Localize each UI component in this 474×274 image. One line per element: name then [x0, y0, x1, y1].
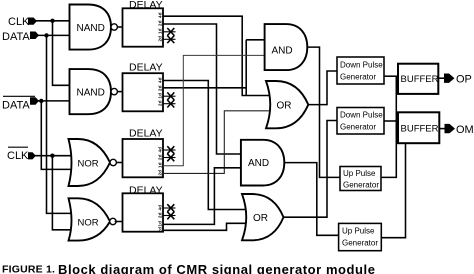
svg-text:AND: AND [272, 45, 293, 56]
wire DATA to NAND1 [38, 34, 70, 36]
svg-text:BUFFER: BUFFER [401, 123, 439, 134]
node DATAbar input pad [30, 97, 39, 104]
wire DELAY2 pin1 to OR2 top [163, 81, 246, 210]
wire AND1 out to UpPulse1 [307, 47, 340, 177]
delay block DELAY3 [123, 128, 164, 178]
svg-text:CLK: CLK [8, 16, 30, 28]
svg-text:1d: 1d [158, 162, 163, 168]
delay block DELAY4 [123, 185, 164, 233]
svg-text:Up Pulse: Up Pulse [342, 227, 375, 236]
svg-text:Generator: Generator [340, 73, 376, 82]
wire DELAY4 pin4 to OR2 bottom [163, 223, 246, 230]
wire DownPulse2 out to BUFFER2 [384, 120, 398, 122]
svg-text:Down Pulse: Down Pulse [340, 61, 383, 70]
svg-text:NAND: NAND [77, 23, 105, 34]
wire UpPulse1 out up to BUFFER1 input [381, 76, 396, 177]
svg-text:2d: 2d [158, 227, 163, 233]
svg-text:1d: 1d [158, 221, 163, 227]
wire OR1 out to DownPulse1 [308, 71, 337, 105]
svg-text:FIGURE 1.: FIGURE 1. [2, 264, 55, 274]
wire NAND2 out to DELAY2 [117, 91, 122, 93]
wire CLKbar to NOR1 [35, 155, 74, 157]
delay block DELAY2 [123, 62, 164, 112]
svg-text:Generator: Generator [343, 181, 379, 190]
gate NAND2 [70, 69, 118, 114]
delay2 X stub pin3 [163, 92, 176, 100]
svg-text:OP: OP [456, 74, 472, 86]
gate NOR1 [69, 139, 117, 186]
wire CLKbar vertical to NOR2 [52, 156, 71, 230]
svg-text:2d: 2d [158, 154, 163, 160]
gate NOR2 [69, 198, 117, 240]
svg-text:Generator: Generator [340, 123, 376, 132]
gate AND1 [265, 24, 308, 70]
wire OR2 out to DownPulse2 [284, 121, 338, 218]
block BUFFER2 [398, 112, 439, 143]
block DownPulseGenerator1 [337, 57, 384, 84]
svg-text:DATA: DATA [2, 31, 30, 43]
wire CLK vertical to NAND2 [53, 21, 70, 86]
svg-text:DATA: DATA [2, 100, 30, 112]
gate OR1 [266, 81, 308, 128]
svg-text:OR: OR [277, 100, 292, 111]
wire DELAY2 pin2 to riser [163, 87, 246, 89]
gate OR2 [242, 194, 284, 240]
delay1 X stub pin3 [163, 28, 176, 36]
wire NOR2 out to DELAY4 [115, 221, 123, 223]
svg-text:AND: AND [248, 158, 269, 169]
block UpPulseGenerator2 [339, 223, 382, 250]
wire UpPulse2 out up to BUFFER2 bottom [381, 143, 405, 238]
svg-text:2d: 2d [158, 212, 163, 218]
wire into AND1 top [246, 39, 264, 41]
junction DATAbar [39, 99, 43, 103]
node CLK input pad [28, 18, 37, 25]
svg-text:BUFFER: BUFFER [401, 74, 439, 85]
node DATAbar input label [2, 96, 35, 111]
svg-text:DELAY: DELAY [129, 128, 163, 140]
node OP label [456, 74, 472, 86]
block DownPulseGenerator2 [337, 108, 384, 135]
node CLK input label [8, 16, 30, 28]
delay block DELAY1 [123, 0, 164, 47]
node DATA input pad [30, 32, 39, 40]
svg-text:4d: 4d [158, 77, 163, 83]
wire NOR1 out to DELAY3 [116, 162, 122, 164]
block BUFFER1 [398, 64, 439, 94]
wire AND2 out to UpPulse2 [284, 163, 338, 236]
wire DATA vertical to NOR2 [47, 35, 72, 213]
wire NAND1 out to DELAY1 [117, 26, 122, 28]
svg-text:4d: 4d [158, 147, 163, 153]
svg-text:4d: 4d [158, 12, 163, 18]
delay4 X stub pin1 [163, 204, 176, 212]
svg-text:Up Pulse: Up Pulse [343, 169, 376, 178]
delay1 X stub pin4 [163, 36, 176, 44]
wire DELAY3 pin4 to OR1 bottom [163, 111, 269, 174]
gate NAND1 [70, 5, 118, 50]
wire DELAY4 pin3 to AND2 bottom [163, 168, 241, 225]
delay3 X stub pin1 [163, 146, 176, 154]
wire BUFFER1 out [438, 77, 444, 79]
wire CLK to NAND1 [36, 20, 70, 22]
svg-text:Block diagram of CMR signal ge: Block diagram of CMR signal generator mo… [58, 262, 375, 274]
junction DATA [44, 33, 48, 37]
svg-text:2d: 2d [158, 36, 163, 42]
svg-text:NOR: NOR [78, 217, 99, 228]
delay3 X stub pin2 [163, 154, 176, 162]
svg-text:2d: 2d [158, 170, 163, 176]
svg-text:NAND: NAND [77, 87, 105, 98]
junction CLKbar [50, 154, 54, 158]
svg-text:2d: 2d [158, 20, 163, 26]
wire DATAbar to NAND2 [38, 100, 70, 102]
node OM arrow [445, 124, 456, 133]
svg-text:OR: OR [253, 213, 268, 224]
wire riser AND1 top to OR1 top [245, 40, 247, 96]
wire DownPulse1 out to BUFFER1 [384, 75, 398, 77]
svg-text:CLK: CLK [7, 150, 29, 162]
svg-text:1d: 1d [158, 93, 163, 99]
node DATA input label [2, 31, 30, 43]
svg-text:Generator: Generator [342, 239, 378, 248]
svg-text:1d: 1d [158, 28, 163, 34]
junction CLK [50, 19, 54, 23]
block UpPulseGenerator1 [340, 167, 381, 191]
svg-text:2d: 2d [158, 100, 163, 106]
wire DELAY1 pin1 to OR1 top [163, 16, 269, 95]
wire BUFFER2 out [439, 128, 444, 130]
svg-text:2d: 2d [158, 85, 163, 91]
wire DELAY3 pin3 to AND1 bottom [163, 55, 265, 165]
gate AND2 [241, 140, 284, 186]
delay4 X stub pin2 [163, 212, 176, 220]
node OM label [456, 124, 474, 136]
svg-text:Down Pulse: Down Pulse [340, 111, 383, 120]
delay2 X stub pin4 [163, 100, 176, 108]
caption FIGURE 1 [2, 262, 375, 274]
node CLKbar input label [7, 147, 29, 162]
node OP arrow [444, 74, 455, 83]
wire DELAY1 pin2 to AND2 top [163, 24, 241, 154]
svg-text:4d: 4d [158, 205, 163, 211]
node CLKbar input pad [28, 152, 36, 159]
svg-text:OM: OM [456, 124, 474, 136]
wire DATAbar vertical to NOR1 [41, 101, 73, 169]
svg-text:NOR: NOR [78, 158, 99, 169]
svg-text:DELAY: DELAY [129, 62, 163, 74]
